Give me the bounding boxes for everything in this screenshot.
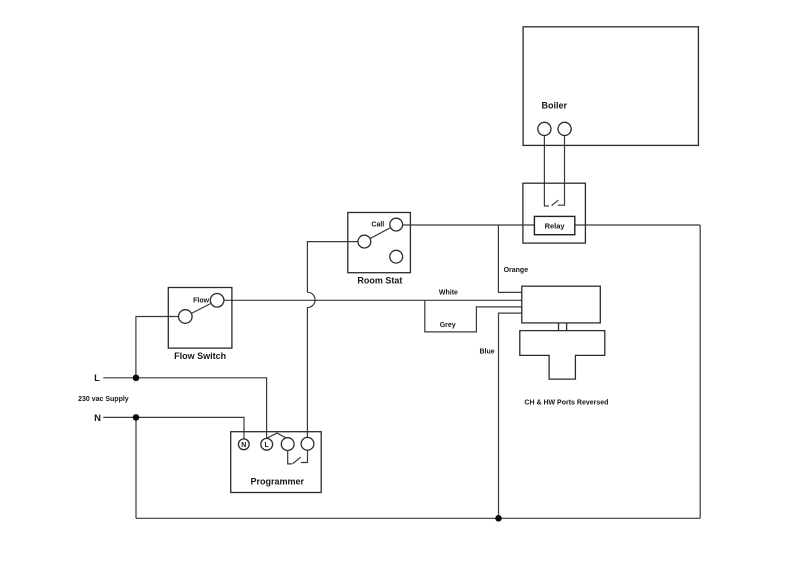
programmer terminal 3 <box>281 438 294 451</box>
flow switch out terminal <box>210 294 224 308</box>
programmer switch right <box>301 450 308 462</box>
svg-text:Programmer: Programmer <box>251 476 305 486</box>
wire orange <box>498 225 521 292</box>
room stat box <box>348 213 411 273</box>
flow switch common terminal <box>179 310 193 324</box>
wire relay line <box>403 224 701 226</box>
wire blue <box>499 313 522 518</box>
boiler box <box>523 27 698 146</box>
svg-text:Call: Call <box>371 222 384 229</box>
room stat spare terminal <box>390 250 403 263</box>
wire room stat common with hop <box>307 242 358 438</box>
relay U1 outer box <box>523 183 586 243</box>
room stat call terminal <box>390 218 403 231</box>
wire flow switch to L junction <box>136 317 179 378</box>
programmer switch left <box>288 451 293 464</box>
wire right bus <box>699 225 701 518</box>
wire boiler left to relay switch <box>544 136 549 207</box>
flow switch blade <box>191 303 211 313</box>
wire N down to bus <box>135 417 137 518</box>
svg-text:L: L <box>94 373 100 384</box>
junction dot L <box>133 375 140 382</box>
programmer L link <box>267 433 287 438</box>
svg-text:Room Stat: Room Stat <box>357 276 402 286</box>
svg-text:Blue: Blue <box>480 349 495 356</box>
wire L supply <box>103 378 266 439</box>
svg-text:Orange: Orange <box>504 267 529 274</box>
svg-text:230 vac Supply: 230 vac Supply <box>78 396 129 403</box>
programmer terminal N <box>238 439 249 450</box>
wire N supply <box>103 417 244 439</box>
wire boiler right to relay switch <box>558 136 565 206</box>
programmer box <box>231 432 322 493</box>
svg-text:N: N <box>241 442 246 449</box>
valve stem stubs <box>559 323 567 331</box>
actuator box <box>522 286 601 323</box>
svg-text:N: N <box>94 413 101 424</box>
flow switch box <box>168 288 232 349</box>
valve body <box>520 331 605 380</box>
relay label box <box>534 216 574 234</box>
junction dot blue/bus <box>495 515 502 522</box>
svg-text:L: L <box>265 442 270 449</box>
room stat switch blade <box>370 228 391 239</box>
relay switch blade <box>552 200 559 206</box>
svg-text:Flow Switch: Flow Switch <box>174 351 226 361</box>
svg-text:Flow: Flow <box>193 298 209 305</box>
wire grey <box>425 300 522 332</box>
svg-text:Relay: Relay <box>545 222 566 231</box>
programmer switch blade <box>293 457 301 463</box>
programmer terminal L <box>261 438 273 450</box>
wire white <box>224 299 522 301</box>
svg-text:CH & HW Ports Reversed: CH & HW Ports Reversed <box>524 400 608 407</box>
boiler terminal 1 <box>538 122 551 135</box>
boiler terminal 2 <box>558 122 571 135</box>
svg-text:Grey: Grey <box>440 322 456 329</box>
wire bottom bus <box>136 517 700 519</box>
junction dot N <box>133 414 140 421</box>
svg-text:Boiler: Boiler <box>542 101 568 111</box>
svg-text:White: White <box>439 290 458 297</box>
programmer terminal 4 <box>301 437 314 450</box>
room stat common terminal <box>358 235 371 248</box>
